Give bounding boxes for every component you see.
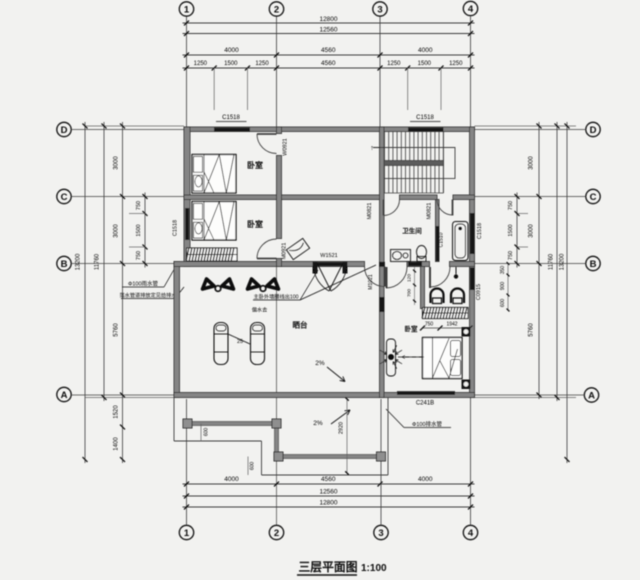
svg-text:3000: 3000	[529, 224, 535, 238]
svg-text:1250: 1250	[387, 61, 401, 67]
svg-text:12800: 12800	[319, 500, 337, 507]
svg-text:11760: 11760	[549, 253, 555, 270]
svg-text:卫生间: 卫生间	[402, 226, 422, 235]
svg-text:2%: 2%	[315, 360, 325, 367]
svg-text:4000: 4000	[418, 476, 433, 483]
svg-text:25: 25	[237, 339, 243, 345]
svg-text:600: 600	[250, 462, 256, 471]
svg-text:350: 350	[500, 266, 506, 275]
svg-text:↑: ↑	[370, 145, 374, 152]
svg-text:13200: 13200	[76, 253, 82, 270]
svg-text:D: D	[590, 125, 597, 136]
svg-text:W0921: W0921	[283, 138, 289, 155]
svg-text:750: 750	[136, 251, 142, 260]
svg-text:1:100: 1:100	[361, 563, 387, 574]
svg-text:1500: 1500	[136, 224, 142, 236]
svg-text:4560: 4560	[321, 60, 336, 67]
svg-text:4000: 4000	[224, 476, 239, 483]
svg-text:B: B	[61, 259, 68, 270]
svg-text:M0821: M0821	[367, 203, 373, 220]
svg-text:2: 2	[274, 528, 279, 539]
svg-text:13200: 13200	[560, 253, 566, 270]
svg-text:A: A	[61, 390, 68, 401]
svg-text:1250: 1250	[449, 61, 463, 67]
svg-text:1: 1	[184, 528, 190, 539]
svg-text:D: D	[61, 125, 68, 136]
svg-text:4: 4	[468, 4, 474, 15]
svg-text:M1021: M1021	[368, 274, 374, 290]
svg-text:卧室: 卧室	[247, 160, 263, 170]
svg-text:120: 120	[407, 274, 413, 282]
svg-text:1400: 1400	[114, 437, 120, 451]
svg-text:900: 900	[500, 282, 506, 291]
svg-text:700: 700	[407, 289, 413, 297]
svg-text:M0921: M0921	[282, 243, 288, 260]
svg-text:3000: 3000	[529, 156, 535, 170]
svg-text:卧室: 卧室	[405, 324, 419, 333]
svg-text:1250: 1250	[255, 61, 269, 67]
svg-text:落水管道排放定见给排水: 落水管道排放定见给排水	[119, 291, 177, 299]
svg-text:主卧外墙腰线出100: 主卧外墙腰线出100	[254, 293, 299, 301]
svg-text:1500: 1500	[224, 61, 238, 67]
svg-text:3: 3	[377, 4, 382, 15]
svg-text:4000: 4000	[224, 47, 239, 54]
svg-text:3000: 3000	[114, 224, 120, 238]
svg-text:4560: 4560	[321, 47, 336, 54]
svg-text:M0821: M0821	[427, 203, 433, 220]
svg-text:C1510: C1510	[439, 232, 445, 247]
svg-text:卧室: 卧室	[247, 219, 263, 229]
svg-text:4: 4	[468, 528, 474, 539]
svg-text:三层平面图: 三层平面图	[299, 560, 358, 574]
svg-text:1942: 1942	[446, 322, 457, 328]
svg-text:12560: 12560	[319, 27, 337, 34]
svg-text:C1518: C1518	[222, 115, 240, 121]
svg-text:750: 750	[508, 201, 514, 210]
svg-text:3000: 3000	[114, 156, 120, 170]
svg-text:750: 750	[136, 201, 142, 210]
svg-text:C241B: C241B	[416, 401, 434, 407]
svg-text:偏水去: 偏水去	[252, 306, 268, 314]
svg-text:C1518: C1518	[173, 220, 179, 236]
svg-text:C1518: C1518	[416, 115, 434, 121]
svg-text:A: A	[588, 390, 595, 401]
svg-text:750: 750	[508, 251, 514, 260]
svg-text:1520: 1520	[114, 405, 120, 419]
svg-text:12560: 12560	[319, 489, 337, 496]
svg-text:5760: 5760	[114, 323, 120, 337]
svg-text:Φ100排水管: Φ100排水管	[412, 420, 443, 428]
svg-text:600: 600	[500, 299, 506, 308]
svg-text:2920: 2920	[339, 422, 345, 434]
svg-text:4000: 4000	[418, 47, 433, 54]
svg-text:2%: 2%	[313, 420, 323, 427]
svg-text:750: 750	[425, 322, 434, 328]
svg-text:1250: 1250	[194, 61, 208, 67]
svg-text:1: 1	[184, 4, 190, 15]
svg-text:12800: 12800	[319, 16, 337, 23]
svg-text:C: C	[61, 192, 68, 203]
svg-text:C0915: C0915	[476, 284, 482, 300]
svg-text:C1518: C1518	[477, 223, 483, 239]
svg-text:2: 2	[274, 4, 279, 15]
svg-text:4560: 4560	[321, 476, 336, 483]
svg-text:晒台: 晒台	[293, 320, 308, 330]
svg-text:Φ100雨水管: Φ100雨水管	[128, 280, 159, 288]
svg-text:5760: 5760	[529, 323, 535, 337]
svg-text:600: 600	[204, 428, 210, 437]
svg-text:B: B	[590, 259, 597, 270]
svg-text:3: 3	[378, 528, 383, 539]
svg-text:W1521: W1521	[320, 253, 337, 259]
svg-text:C: C	[590, 192, 597, 203]
svg-text:1500: 1500	[508, 224, 514, 236]
svg-text:11760: 11760	[95, 253, 101, 270]
svg-text:1500: 1500	[418, 61, 432, 67]
